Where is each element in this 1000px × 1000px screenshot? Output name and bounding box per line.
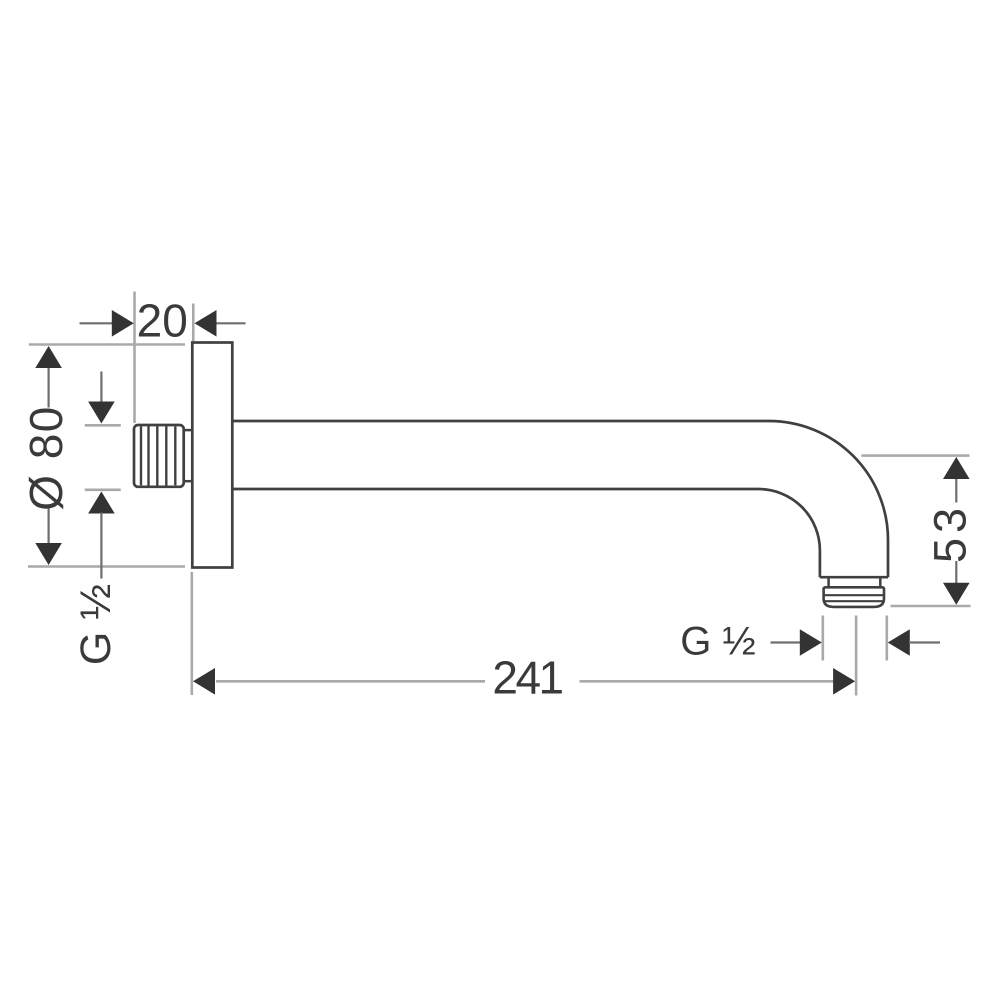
svg-text:G ½: G ½ bbox=[72, 584, 120, 665]
dim 53: up arrow bbox=[943, 457, 970, 479]
dim G half left: upper line bbox=[100, 372, 102, 404]
dim G half right: left line bbox=[771, 641, 801, 643]
svg-text:G ½: G ½ bbox=[680, 620, 756, 664]
svg-text:Ø 80: Ø 80 bbox=[20, 405, 72, 511]
wall plate (escutcheon) bbox=[192, 343, 232, 568]
dim 20: left arrow bbox=[112, 310, 134, 337]
dim diameter 80: bottom extension line bbox=[28, 565, 185, 568]
tip thread body bbox=[824, 587, 884, 607]
dim 53: top extension line bbox=[862, 454, 970, 457]
dim G half left: down arrow bbox=[88, 402, 115, 424]
dim 53: down arrow bbox=[943, 583, 970, 605]
svg-text:20: 20 bbox=[137, 295, 188, 347]
dim 241: left dimension line bbox=[216, 680, 485, 683]
dim G half right: right extension line bbox=[885, 616, 888, 661]
connector neck bbox=[184, 430, 193, 481]
dim G half right: right line bbox=[909, 641, 940, 643]
dim 241: left extension line bbox=[191, 572, 194, 695]
thread hatch lines bbox=[141, 425, 175, 486]
dim diameter 80: down arrow bbox=[35, 543, 62, 565]
svg-text:53: 53 bbox=[925, 503, 976, 563]
dim G half right: left extension line bbox=[821, 616, 824, 661]
shower arm tube outline bbox=[232, 421, 888, 577]
dim 53: bottom extension line bbox=[891, 605, 971, 608]
dim G half left: top tick bbox=[85, 424, 121, 427]
dim diameter 80: dimension line upper bbox=[47, 366, 49, 408]
arm outer edge bbox=[232, 421, 888, 577]
dim diameter 80: dimension line lower bbox=[47, 507, 49, 546]
dim G half left: up arrow bbox=[88, 492, 115, 514]
arm inner edge bbox=[232, 489, 820, 577]
dim 20: left dimension line bbox=[80, 322, 114, 324]
dim 241: left-pointing arrow bbox=[193, 668, 215, 695]
threaded wall connector body bbox=[134, 425, 184, 487]
tube end cap line bbox=[820, 576, 888, 579]
dim G half right: right-pointing arrow bbox=[800, 629, 822, 656]
dim G half left: bottom tick bbox=[85, 488, 121, 491]
dim G half right: left-pointing arrow bbox=[888, 629, 910, 656]
dim 20: extension line right bbox=[192, 304, 195, 342]
dim 20: right dimension line bbox=[216, 322, 246, 324]
dim 241: right-pointing arrow bbox=[833, 668, 855, 695]
dim G half left: lower line bbox=[100, 513, 102, 579]
dim diameter 80: up arrow bbox=[35, 346, 62, 368]
dim 53: dimension line upper bbox=[955, 478, 957, 503]
dim 20: extension line left bbox=[133, 292, 136, 424]
tip thread neck bbox=[829, 577, 881, 587]
svg-text:241: 241 bbox=[492, 652, 562, 704]
tip thread lines bbox=[824, 595, 884, 601]
dim 241: right extension line bbox=[855, 616, 858, 696]
dim 20: right arrow bbox=[195, 310, 217, 337]
dim 53: dimension line lower bbox=[955, 561, 957, 584]
dim diameter 80: top extension line bbox=[29, 343, 185, 346]
dim 241: right dimension line bbox=[580, 680, 834, 683]
